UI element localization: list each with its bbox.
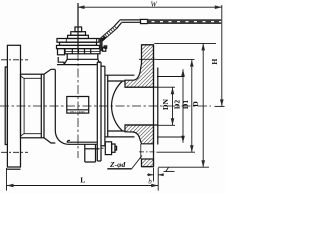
dim H line bbox=[221, 24, 223, 106]
joint bottom bolt tip bbox=[115, 146, 117, 150]
dim D2 line bbox=[181, 69, 185, 143]
joint vertical 1 bbox=[100, 62, 102, 161]
hub inner vertical bbox=[23, 78, 25, 133]
hub-body taper top bbox=[44, 69, 55, 74]
left flange bolt axis bottom bbox=[1, 151, 28, 153]
svg-text:H: H bbox=[210, 59, 219, 65]
nameplate bbox=[67, 97, 89, 114]
main horizontal centerline bbox=[0, 105, 211, 107]
handle angled grip bbox=[100, 26, 117, 41]
left flange disc bottom second line bbox=[7, 168, 21, 170]
DN bottom ext bbox=[158, 124, 175, 126]
lower bore line bbox=[125, 124, 158, 126]
svg-text:L: L bbox=[80, 176, 85, 185]
adapter opening vertical bbox=[107, 75, 109, 137]
vertical stem centerline dashed bbox=[77, 52, 79, 158]
row A internal verticals bbox=[66, 39, 96, 43]
svg-text:D2: D2 bbox=[172, 100, 181, 109]
adapter flange step top bbox=[101, 65, 105, 67]
dim DN line bbox=[171, 87, 175, 125]
dim H bottom arrow bbox=[220, 99, 224, 106]
hub weld seam right bbox=[40, 74, 42, 138]
svg-text:Z-φd: Z-φd bbox=[109, 160, 125, 169]
handle sleeve bbox=[148, 19, 222, 24]
dim D top ext line bbox=[154, 42, 216, 44]
right flange bolt axis top bbox=[139, 58, 157, 60]
svg-text:D: D bbox=[191, 101, 200, 107]
dim D bottom ext bbox=[158, 166, 209, 168]
body top left step bbox=[58, 57, 64, 65]
adapter bottom outer line bbox=[105, 136, 135, 138]
joint bottom bolt head bbox=[105, 142, 111, 155]
right flange bottom edge bbox=[142, 166, 154, 168]
body right flange line bbox=[96, 62, 98, 161]
stem gland bbox=[68, 35, 89, 38]
seat boundary bottom bbox=[108, 130, 125, 132]
dim D line bbox=[201, 43, 205, 167]
D1 top ext bbox=[157, 59, 195, 61]
bottom column bbox=[85, 144, 96, 162]
handle clamp step bbox=[103, 47, 106, 51]
body top edge bbox=[57, 64, 97, 66]
svg-text:W: W bbox=[151, 0, 158, 8]
ball arc bbox=[112, 81, 123, 131]
adapter flange step bottom bbox=[101, 145, 105, 147]
Z-phi-d underline bbox=[107, 168, 132, 170]
handle bend bbox=[114, 20, 121, 28]
bonnet left bolt bbox=[58, 49, 65, 55]
right flange raised face bbox=[154, 45, 158, 167]
hole left face line bbox=[140, 144, 142, 159]
svg-text:PN1.6MPa: PN1.6MPa bbox=[70, 110, 85, 114]
tiny clamp box bbox=[104, 46, 107, 48]
bonnet row C plate bbox=[57, 45, 100, 48]
hub inner bottom edge bbox=[21, 134, 42, 136]
bonnet lower line bbox=[64, 59, 100, 64]
seat boundary top bbox=[108, 80, 125, 82]
dim W line bbox=[78, 5, 222, 9]
left flange raised face bbox=[5, 67, 7, 145]
bottom column line bbox=[85, 148, 100, 150]
left hub barrel bbox=[21, 74, 45, 138]
handle grip hatches bbox=[101, 26, 116, 40]
bonnet flare line bbox=[67, 54, 98, 60]
bonnet row B plate bbox=[60, 42, 97, 45]
joint bottom bolt collar bbox=[112, 144, 115, 152]
joint bottom bolt axis dash bbox=[101, 147, 104, 149]
nameplate inner hline bbox=[67, 109, 89, 111]
handle clamp column bbox=[100, 38, 103, 51]
vertical stem centerline solid top bbox=[77, 3, 79, 52]
hub-body taper bottom bbox=[44, 138, 55, 143]
hub inner top edge bbox=[21, 76, 42, 78]
left flange disc bbox=[7, 45, 20, 167]
dim W right extension bbox=[221, 5, 223, 24]
bonnet band mid line bbox=[65, 50, 100, 52]
svg-text:b: b bbox=[148, 178, 152, 186]
upper bore line bbox=[125, 86, 158, 88]
dim b ext left bbox=[153, 168, 155, 182]
svg-text:D1: D1 bbox=[181, 100, 190, 109]
L left ext bbox=[6, 168, 8, 191]
dim L line bbox=[7, 184, 159, 188]
lower flange hatched section bbox=[125, 125, 154, 144]
D2 bottom ext bbox=[157, 136, 185, 138]
bonnet row A plate bbox=[57, 39, 99, 43]
D2 top ext bbox=[157, 76, 185, 78]
stem nut1 bbox=[75, 27, 82, 32]
body bottom double line bbox=[67, 140, 97, 144]
D1 bottom ext bbox=[157, 151, 196, 153]
bonnet band dividers bbox=[72, 49, 90, 54]
adapter flange vertical bbox=[104, 66, 106, 146]
slanted tick 1 bbox=[166, 167, 169, 172]
Z-phi-d leader bbox=[132, 156, 142, 169]
handle ferrule bbox=[141, 19, 148, 23]
joint bottom cap bbox=[97, 160, 101, 162]
handle rod bbox=[120, 20, 141, 22]
handle sleeve dashes bbox=[152, 21, 222, 23]
right flange bolt axis bottom dashed bbox=[139, 151, 157, 153]
lower flange below hole hatched bbox=[142, 159, 154, 167]
stem nut2 bbox=[71, 32, 86, 36]
body outline bbox=[55, 70, 67, 145]
joint top cap bbox=[97, 61, 101, 63]
right flange top edge bbox=[142, 44, 154, 46]
bonnet band with bolts bbox=[65, 49, 100, 54]
H centerline tick bbox=[215, 105, 225, 107]
L right ext bbox=[157, 168, 159, 191]
upper flange hatched section bbox=[125, 45, 154, 87]
svg-text:DN: DN bbox=[161, 99, 170, 110]
dim b arrows bbox=[147, 173, 164, 176]
adapter top outer line bbox=[105, 74, 135, 76]
left flange bolt axis top bbox=[1, 59, 28, 61]
grip base wedge bbox=[101, 37, 106, 41]
value shelf line bbox=[164, 170, 175, 172]
dim D1 line bbox=[190, 60, 194, 153]
DN top ext bbox=[158, 86, 175, 88]
